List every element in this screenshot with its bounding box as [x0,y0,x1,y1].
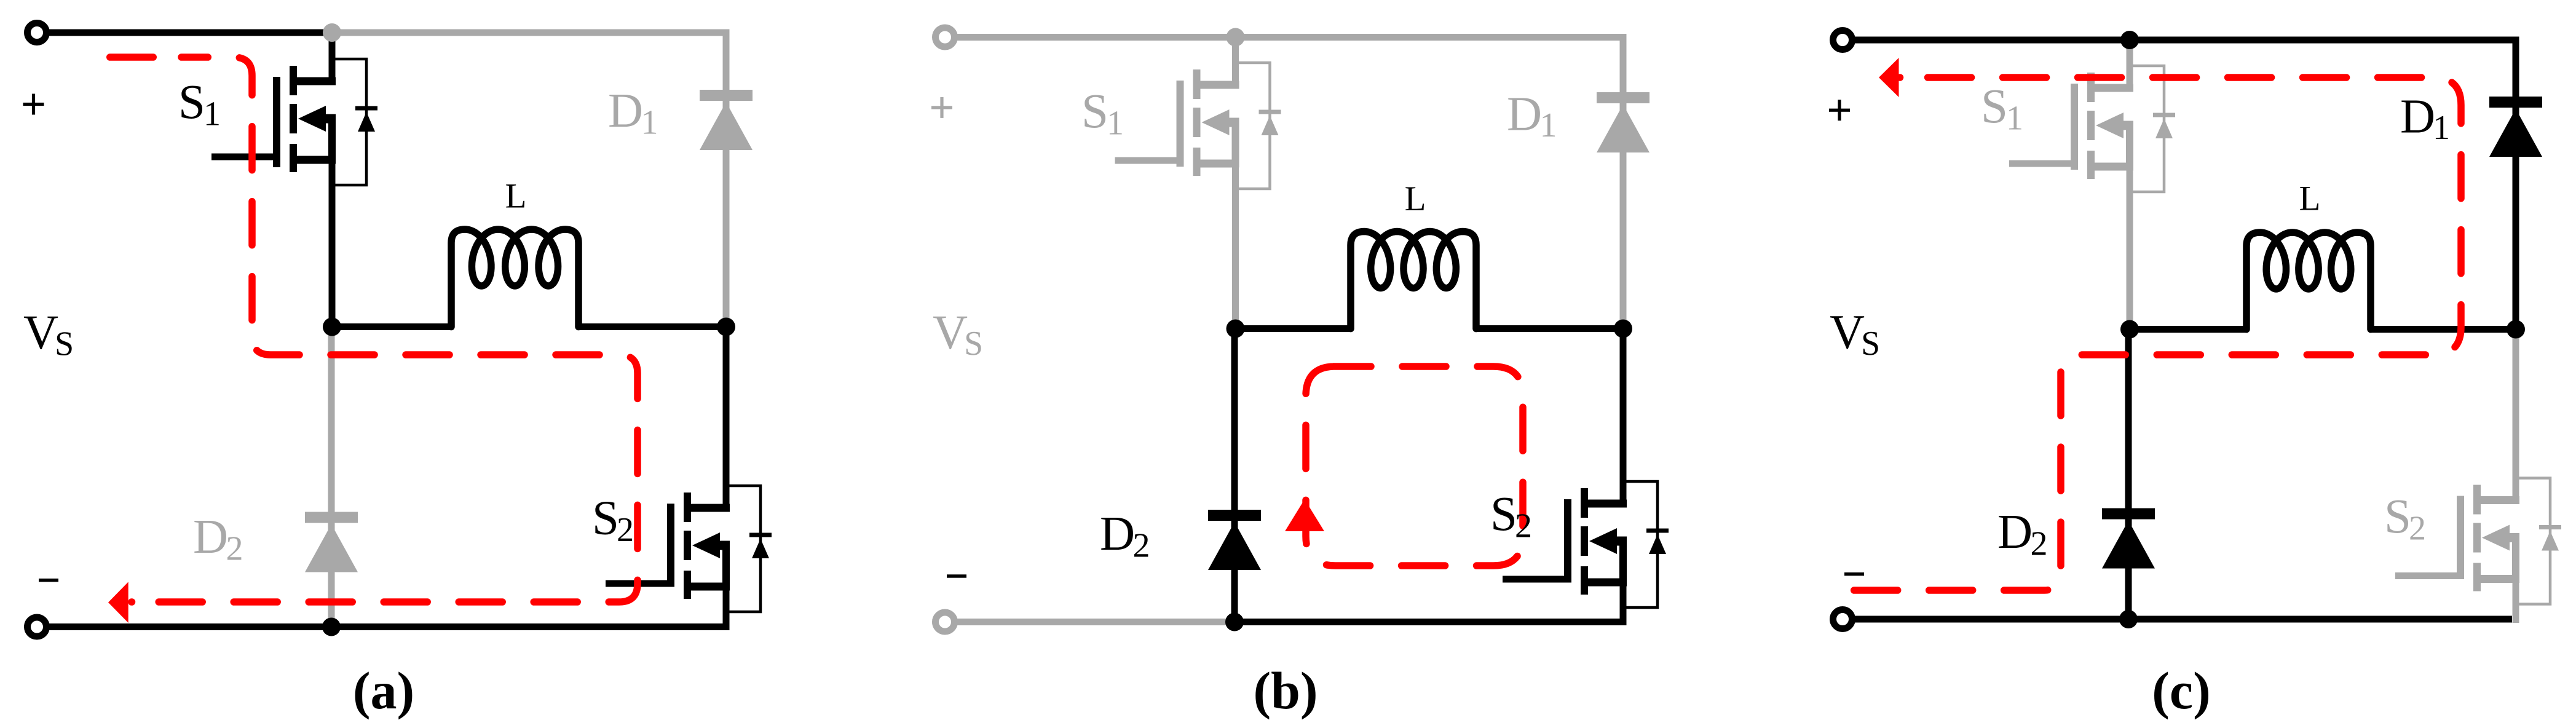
svg-text:1: 1 [2433,109,2450,147]
wire S1 source to mid node (c) (inactive) [2127,125,2133,330]
svg-text:S: S [592,492,619,545]
inductor L (c) [2246,232,2371,330]
node mid-left junction (b) [1227,320,1245,338]
label + (c) [1829,109,1850,112]
wire top + D1 branch (c) [1843,40,2516,330]
svg-text:D: D [2400,90,2435,144]
label - (c) [1844,572,1864,576]
wire S1 source to mid node (b) (inactive) [1232,122,1239,329]
transistor S2 (a) [606,486,772,612]
wire D2 branch (c) [2125,330,2132,620]
node mid-right junction (c) [2507,320,2525,339]
svg-text:S: S [1081,85,1108,138]
transistor S1 (b) drain lead (inactive) [1232,38,1239,85]
svg-text:S: S [2384,490,2411,544]
label + (b) [931,106,952,109]
label + (a) [23,103,44,106]
wire D2 branch (b) [1231,329,1238,622]
wire mid left (a): node to inductor [332,323,451,330]
arrowhead (a) [108,582,128,623]
transistor S2 (c) [2395,478,2561,604]
wire bottom right + S2 source (b) [1236,541,1624,622]
wire mid right (a): inductor to right node [579,323,726,330]
diode D1 (c) [2489,102,2542,157]
svg-text:1: 1 [203,95,221,133]
svg-text:1: 1 [641,104,658,142]
svg-text:D: D [1997,505,2033,559]
diode D1 (a) [700,95,753,150]
diode D2 (a) [305,518,358,572]
current loop (b) red dashed [1306,366,1523,566]
svg-text:(b): (b) [1253,661,1318,720]
transistor S1 (c) drain lead (inactive) [2127,40,2133,88]
current path (a) nub at arrow [128,598,135,606]
diode D2 (b) [1208,515,1261,570]
wire S2 drain lead (c) (inactive) [2513,330,2519,501]
inductor L (b) [1351,232,1476,329]
transistor S1 (b) [1115,63,1281,189]
node bottom junction (b) [1225,613,1244,631]
svg-text:L: L [1405,180,1426,218]
node mid-right junction (a) [717,318,735,336]
terminal + (c) [1833,31,1852,50]
svg-text:S: S [1981,80,2008,133]
wire bottom left (b) (inactive) [945,619,1236,625]
svg-text:1: 1 [1107,105,1124,143]
svg-text:(a): (a) [353,661,414,720]
svg-text:V: V [23,306,58,360]
current path (a) first dash top [110,53,154,61]
terminal + (a) [28,23,47,42]
label - (a) [39,579,58,582]
svg-text:S: S [178,76,205,129]
label - (b) [947,574,966,577]
node bottom junction (a) [322,618,341,636]
svg-text:S: S [55,325,74,363]
wire S1 source to mid node (a) [329,119,336,327]
svg-text:D: D [1100,507,1135,561]
svg-text:V: V [933,306,968,360]
wire top right + D1 branch (a) (inactive) [332,33,726,327]
svg-text:1: 1 [2006,100,2023,138]
svg-text:1: 1 [1540,106,1557,144]
node mid-left junction (c) [2120,320,2139,339]
wire D2 branch (a) (inactive) [328,327,335,627]
svg-text:2: 2 [617,511,634,549]
svg-text:L: L [505,176,527,215]
node mid-left junction (a) [323,318,341,336]
transistor S1 (a) drain lead [329,33,336,81]
inductor L (a) [451,229,579,327]
svg-text:D: D [193,510,228,564]
svg-text:D: D [608,84,643,138]
wire S2 drain lead (b) [1620,329,1627,504]
node mid-right junction (b) [1614,320,1632,338]
svg-text:2: 2 [2409,510,2426,548]
wire mid right (b) [1476,325,1623,332]
arrowhead (b) [1285,499,1324,531]
wire bottom (c) [1843,616,2512,623]
wire top + D1 branch (b) (inactive) [945,38,1623,329]
wire S2 source + bottom (a) [37,545,726,627]
wire S2 source to bottom (c) (inactive) [2513,538,2519,623]
svg-text:2: 2 [1133,527,1150,565]
svg-text:(c): (c) [2152,661,2210,720]
svg-text:2: 2 [226,530,243,568]
svg-text:V: V [1830,306,1865,360]
wire top (a): + terminal to S1 drain node [37,30,332,36]
wire mid right (c) [2371,326,2516,333]
arrowhead (c) [1879,58,1899,97]
node top junction (c) [2120,31,2139,49]
node bottom junction (c) [2119,610,2138,628]
wire S2 drain lead (a) [723,327,730,508]
wire mid left (b) [1236,325,1351,332]
current path (c) nub at arrow [1896,74,1903,81]
transistor S1 (a) [211,59,377,185]
current path (a) red dashed [132,57,638,602]
svg-text:S: S [1490,488,1517,541]
transistor S2 (b) [1503,481,1669,607]
diode D1 (b) [1597,98,1650,152]
node top junction (a) [323,23,341,42]
terminal + (b) [936,28,955,47]
transistor S1 (c) [2009,66,2175,192]
svg-text:D: D [1507,88,1542,141]
svg-text:2: 2 [2031,525,2048,563]
terminal - (b) [936,612,955,631]
current path (c) red dashed [1844,77,2461,590]
svg-text:2: 2 [1515,507,1532,545]
node top junction (b) [1227,28,1245,47]
svg-text:S: S [1861,325,1880,363]
terminal - (a) [28,617,47,636]
terminal - (c) [1833,610,1852,629]
svg-text:S: S [964,325,983,363]
wire mid left (c) [2130,326,2246,333]
svg-text:L: L [2299,180,2321,218]
diode D2 (c) [2102,514,2155,569]
